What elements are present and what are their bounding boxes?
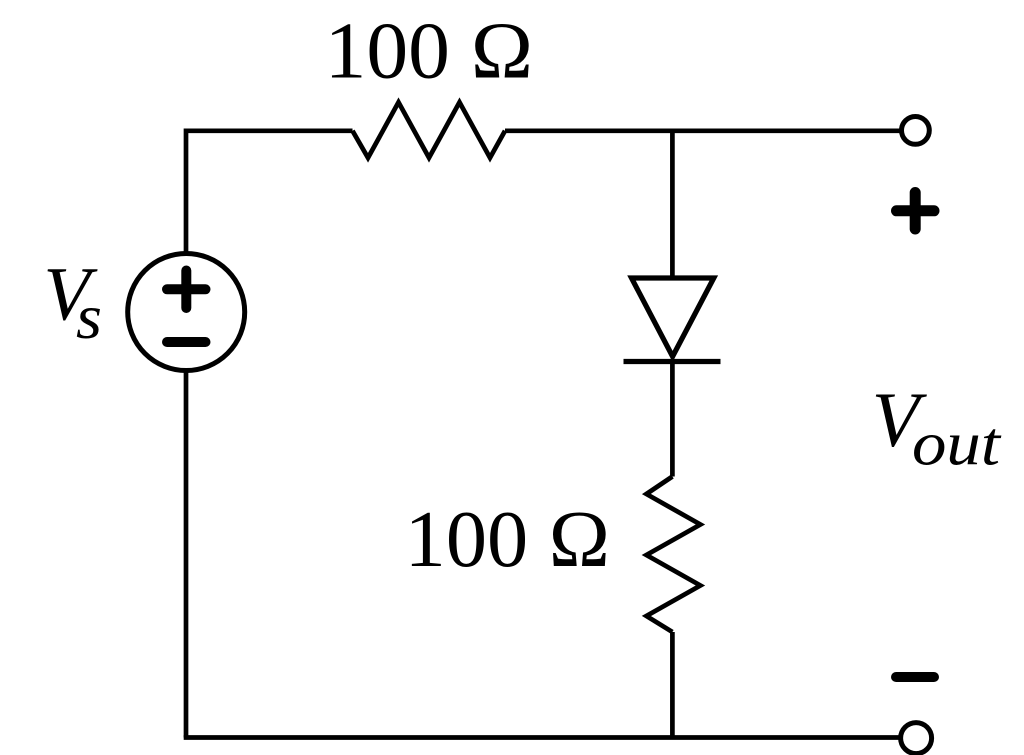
resistor R1 100 ohm (series, horizontal zigzag) [353, 102, 506, 158]
terminal: output negative (open circle, bottom right) [901, 723, 932, 754]
label: plus sign at output [897, 193, 935, 230]
svg-text:out: out [912, 411, 1002, 479]
diode D1: cathode bar [624, 359, 721, 364]
voltage source Vs: circle [128, 254, 245, 371]
terminal: output positive (open circle, top right) [902, 116, 930, 144]
svg-text:100 Ω: 100 Ω [405, 496, 610, 584]
wire: top rail, resistor R1 right lead to output terminal [505, 128, 900, 133]
voltage source Vs: minus sign [167, 337, 206, 347]
wire: left vertical, source bottom down to bottom rail [184, 371, 189, 738]
wire: middle branch, top rail down to diode D1 anode [670, 131, 675, 278]
wire: middle branch, resistor R2 bottom lead down to bottom rail [670, 632, 675, 738]
label: minus sign at output [896, 672, 934, 682]
svg-text:100 Ω: 100 Ω [325, 7, 533, 95]
wire: bottom rail, left corner to bottom output terminal [184, 735, 899, 740]
resistor R2 100 ohm (shunt, vertical zigzag) [646, 477, 700, 633]
wire: left vertical, top rail down to source top [184, 129, 189, 253]
voltage source Vs: plus sign [167, 271, 206, 309]
wire: top rail, source corner to resistor R1 left lead [186, 128, 353, 133]
svg-text:s: s [76, 281, 102, 352]
diode D1: triangle (anode, pointing down) [632, 278, 714, 357]
wire: middle branch, diode cathode down to resistor R2 top lead [670, 362, 675, 477]
